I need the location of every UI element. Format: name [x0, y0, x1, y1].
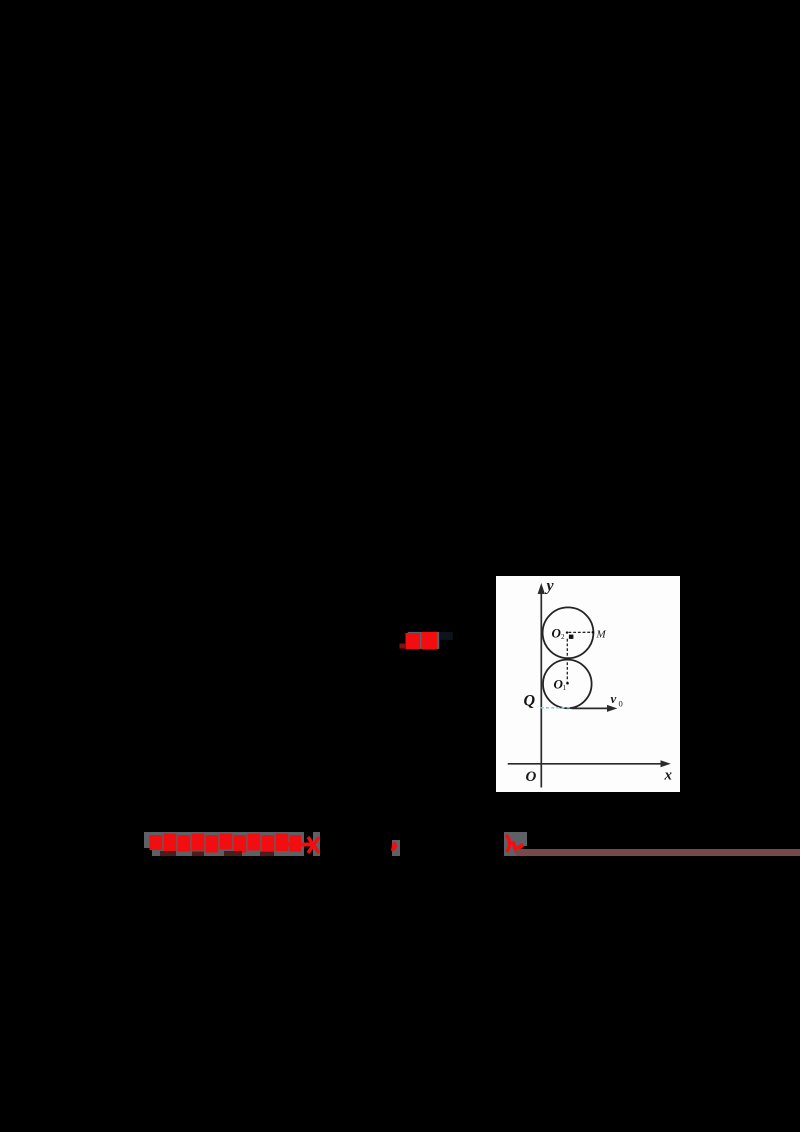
svg-text:Q: Q	[524, 693, 536, 710]
red highlighted text line	[140, 828, 540, 862]
svg-text:O: O	[552, 626, 562, 641]
y-axis arrowhead	[538, 583, 545, 594]
M dot	[592, 631, 595, 634]
lower circle O1	[543, 660, 592, 709]
O2 center dot	[566, 631, 568, 633]
closing paren cluster with gray highlight	[500, 828, 540, 862]
x-axis arrowhead	[661, 760, 671, 767]
maroon underline to page edge	[516, 849, 800, 856]
diagram panel	[496, 576, 680, 792]
svg-text:v: v	[611, 691, 617, 706]
cyan dashed line	[541, 707, 572, 709]
v0 arrow	[571, 707, 609, 709]
red annotation "cuojie" with gray highlight	[395, 625, 465, 655]
gray highlight strips	[144, 832, 304, 848]
right-angle square marker	[569, 635, 574, 639]
svg-text:2: 2	[561, 633, 565, 641]
svg-text:1: 1	[563, 684, 567, 692]
upper circle O2	[543, 607, 594, 658]
dark red smudges under text	[160, 851, 274, 856]
svg-text:M: M	[596, 629, 607, 641]
dashed line O2 to M	[569, 631, 593, 633]
red cjk-like glyph blocks	[150, 834, 302, 853]
svg-text:0: 0	[619, 699, 623, 709]
comma with gray highlight	[392, 840, 400, 856]
red arrow with x mark	[287, 837, 319, 853]
y-axis	[540, 591, 542, 788]
O1 center dot	[566, 682, 569, 685]
svg-text:O: O	[526, 769, 537, 785]
dashed line O2 to O1	[566, 639, 568, 682]
x-axis	[508, 763, 663, 765]
svg-text:y: y	[545, 578, 555, 595]
svg-text:x: x	[664, 768, 673, 784]
